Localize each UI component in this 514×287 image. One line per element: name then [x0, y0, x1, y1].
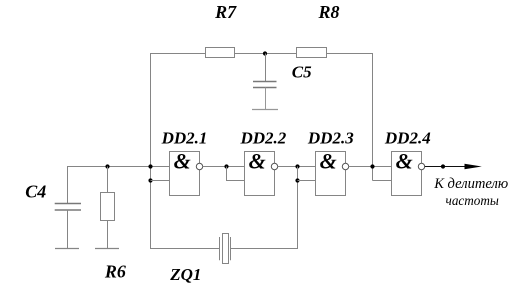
svg-text:К делителю: К делителю — [433, 176, 508, 192]
gate DD2.3 output inversion circle — [342, 163, 348, 169]
gate DD2.1 box — [170, 152, 200, 196]
wire crystal bottom right — [231, 248, 299, 250]
resistor R6 bottom lead — [107, 221, 109, 249]
wire DD2.4 output — [425, 166, 466, 168]
node DD2.1 input 2 on rail A — [148, 178, 152, 182]
wire DD2.3 input 2 — [298, 180, 316, 182]
svg-text:R6: R6 — [104, 262, 126, 282]
ground bar under C4 — [55, 248, 79, 250]
gate DD2.2 box — [245, 152, 275, 196]
gate DD2.2 output inversion circle — [271, 163, 277, 169]
crystal ZQ1 right plate — [230, 237, 232, 260]
gate DD2.3 box — [316, 152, 346, 196]
svg-text:частоты: частоты — [446, 193, 499, 208]
node DD2.4 input tie (rail B) — [370, 164, 374, 168]
svg-text:DD2.3: DD2.3 — [307, 129, 354, 148]
wire crystal bottom left — [150, 248, 220, 250]
node DD2.1 input 1 on rail A — [148, 164, 152, 168]
node on output wire — [441, 164, 445, 168]
resistor R8 — [297, 48, 327, 58]
wire DD2.1 input 2 — [151, 180, 170, 182]
svg-text:ZQ1: ZQ1 — [169, 265, 201, 284]
ground bar under C5 — [252, 109, 278, 111]
wire rail C vertical (to crystal) — [297, 167, 299, 250]
svg-text:R8: R8 — [317, 2, 339, 22]
gate DD2.4 output inversion circle — [418, 163, 424, 169]
svg-text:R7: R7 — [214, 2, 237, 22]
wire DD2.2 input 2 drop — [227, 167, 245, 181]
node DD2.3 input 2 on rail C — [295, 178, 299, 182]
crystal ZQ1 left plate — [219, 237, 221, 260]
wire rail A vertical (DD2.1 input rail) — [150, 53, 152, 249]
resistor R6 top lead — [107, 167, 109, 193]
gate DD2.4 box — [392, 152, 422, 196]
wire DD2.2 output to DD2.3 — [278, 166, 316, 168]
svg-text:DD2.1: DD2.1 — [161, 129, 208, 148]
wire DD2.3 output to DD2.4 — [349, 166, 392, 168]
svg-text:&: & — [174, 148, 191, 173]
capacitor C4 top lead — [67, 167, 69, 204]
wire DD2.1 output to DD2.2 — [203, 166, 245, 168]
svg-text:&: & — [396, 148, 413, 173]
node rail C top — [295, 164, 299, 168]
capacitor C5 plates — [253, 81, 277, 83]
capacitor C5 top lead — [265, 54, 267, 82]
node junction R7/R8/C5 — [263, 51, 267, 55]
node junction R6 top — [105, 164, 109, 168]
capacitor C4 plates — [55, 203, 81, 205]
wire rail B vertical (R8 to DD2.4 input) — [372, 53, 374, 181]
svg-text:C4: C4 — [25, 182, 46, 202]
crystal ZQ1 body — [223, 234, 229, 264]
svg-text:C5: C5 — [292, 63, 312, 82]
resistor R6 — [101, 193, 115, 221]
output arrow head — [465, 164, 482, 169]
svg-text:&: & — [249, 148, 266, 173]
capacitor C5 bottom lead — [265, 88, 267, 110]
node DD2.2 input tie — [224, 164, 228, 168]
svg-text:&: & — [320, 148, 337, 173]
wire main input line (C4/R6 node to DD2.1) — [67, 166, 170, 168]
svg-text:DD2.4: DD2.4 — [384, 129, 431, 148]
capacitor C4 bottom lead — [67, 210, 69, 249]
svg-text:DD2.2: DD2.2 — [239, 129, 286, 148]
ground bar under R6 — [95, 248, 119, 250]
wire top horizontal from rail A to rail B — [150, 53, 373, 55]
resistor R7 — [206, 48, 235, 58]
wire DD2.4 input 2 — [373, 180, 392, 182]
gate DD2.1 output inversion circle — [196, 163, 202, 169]
